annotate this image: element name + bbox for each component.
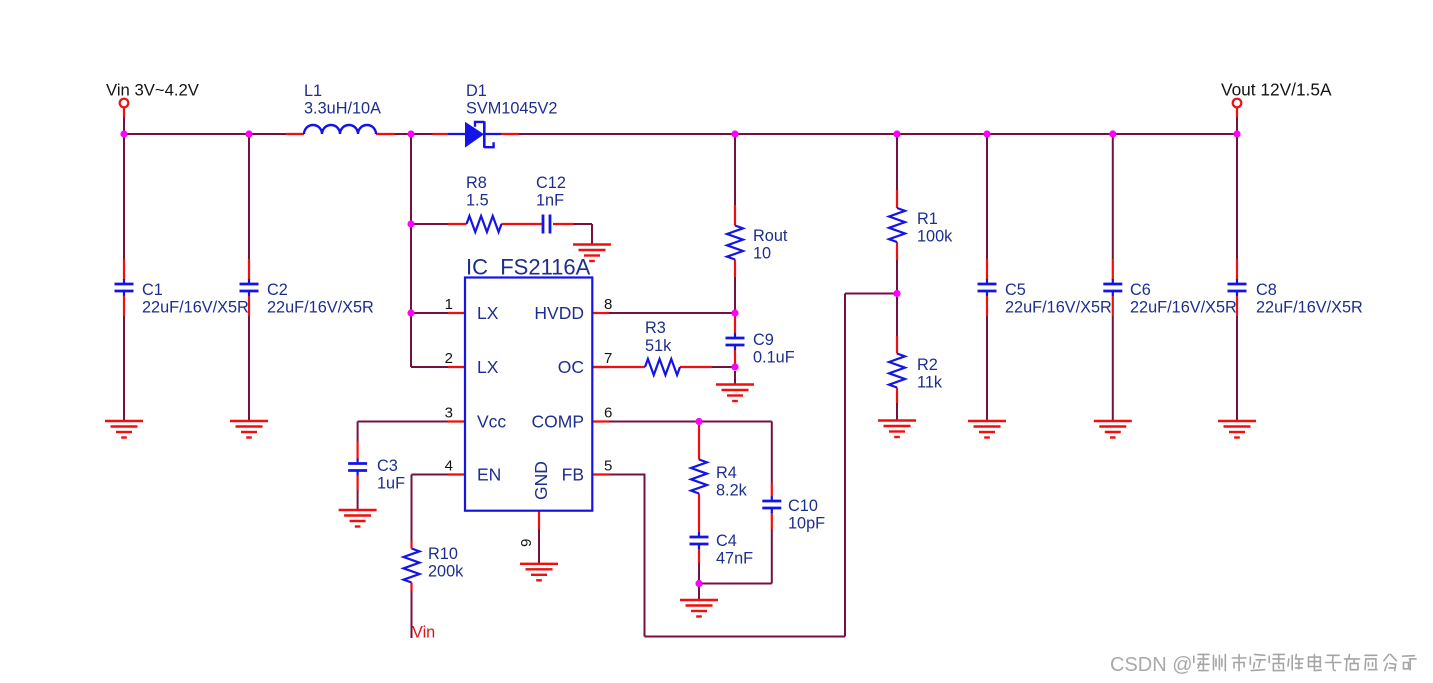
svg-text:3: 3: [445, 405, 453, 422]
svg-text:6: 6: [604, 405, 612, 422]
svg-text:100k: 100k: [917, 228, 953, 246]
svg-text:C6: C6: [1130, 281, 1151, 299]
svg-text:CSDN @: CSDN @: [1110, 654, 1193, 676]
svg-text:22uF/16V/X5R: 22uF/16V/X5R: [142, 299, 249, 317]
svg-text:IC FS2116A: IC FS2116A: [466, 255, 591, 280]
svg-text:1.5: 1.5: [466, 192, 489, 210]
svg-text:C9: C9: [753, 331, 774, 349]
svg-text:200k: 200k: [428, 563, 464, 581]
svg-text:LX: LX: [477, 357, 499, 377]
svg-text:LX: LX: [477, 303, 499, 323]
svg-text:7: 7: [604, 350, 612, 367]
svg-text:C3: C3: [377, 457, 398, 475]
svg-text:COMP: COMP: [532, 412, 585, 432]
svg-text:C1: C1: [142, 281, 163, 299]
svg-text:R10: R10: [428, 545, 458, 563]
svg-text:3.3uH/10A: 3.3uH/10A: [304, 100, 381, 118]
svg-text:47nF: 47nF: [716, 550, 753, 568]
svg-text:FB: FB: [562, 465, 584, 485]
svg-text:OC: OC: [558, 357, 584, 377]
svg-text:10pF: 10pF: [788, 515, 825, 533]
svg-text:8.2k: 8.2k: [716, 482, 748, 500]
svg-text:R3: R3: [645, 319, 666, 337]
svg-text:22uF/16V/X5R: 22uF/16V/X5R: [1005, 299, 1112, 317]
svg-text:5: 5: [604, 458, 612, 475]
svg-text:9: 9: [518, 539, 535, 547]
svg-text:C12: C12: [536, 174, 566, 192]
svg-text:C10: C10: [788, 497, 818, 515]
svg-text:GND: GND: [531, 461, 551, 500]
svg-text:C4: C4: [716, 532, 737, 550]
svg-text:8: 8: [604, 296, 612, 313]
svg-text:C8: C8: [1256, 281, 1277, 299]
svg-text:Vout 12V/1.5A: Vout 12V/1.5A: [1221, 80, 1332, 100]
svg-text:R4: R4: [716, 464, 737, 482]
svg-text:SVM1045V2: SVM1045V2: [466, 100, 557, 118]
svg-text:1uF: 1uF: [377, 475, 405, 493]
svg-text:HVDD: HVDD: [534, 303, 584, 323]
svg-text:D1: D1: [466, 82, 487, 100]
svg-text:51k: 51k: [645, 337, 672, 355]
svg-text:2: 2: [445, 350, 453, 367]
svg-text:L1: L1: [304, 82, 322, 100]
svg-text:Rout: Rout: [753, 227, 788, 245]
svg-text:22uF/16V/X5R: 22uF/16V/X5R: [1130, 299, 1237, 317]
svg-text:R2: R2: [917, 356, 938, 374]
svg-text:10: 10: [753, 245, 771, 263]
svg-text:4: 4: [445, 458, 453, 475]
svg-text:C2: C2: [267, 281, 288, 299]
svg-text:1: 1: [445, 296, 453, 313]
svg-text:Vin: Vin: [412, 624, 435, 642]
svg-text:0.1uF: 0.1uF: [753, 349, 795, 367]
svg-text:R1: R1: [917, 210, 938, 228]
svg-text:Vin 3V~4.2V: Vin 3V~4.2V: [106, 81, 200, 100]
svg-text:R8: R8: [466, 174, 487, 192]
svg-text:11k: 11k: [917, 374, 943, 392]
svg-text:1nF: 1nF: [536, 192, 564, 210]
svg-text:C5: C5: [1005, 281, 1026, 299]
svg-text:EN: EN: [477, 465, 501, 485]
svg-text:22uF/16V/X5R: 22uF/16V/X5R: [1256, 299, 1363, 317]
svg-text:22uF/16V/X5R: 22uF/16V/X5R: [267, 299, 374, 317]
svg-text:Vcc: Vcc: [477, 412, 506, 432]
